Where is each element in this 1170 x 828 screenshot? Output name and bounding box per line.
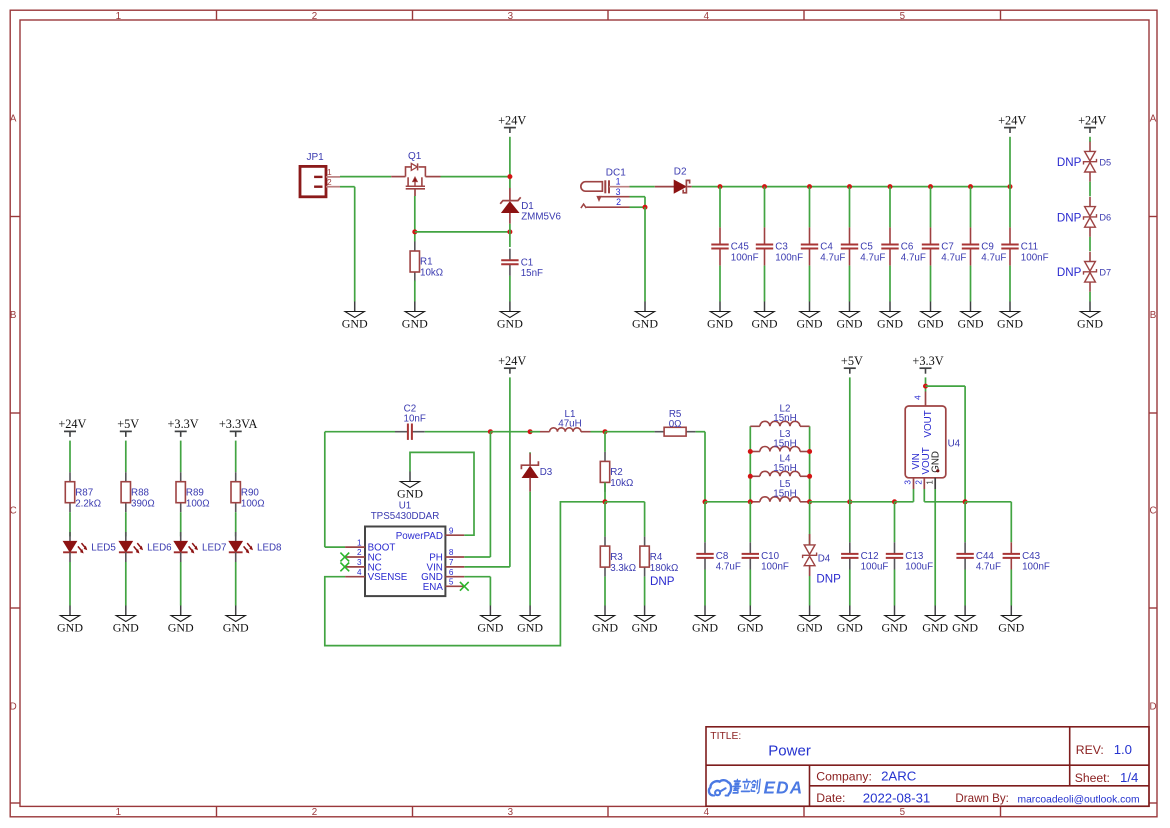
svg-text:9: 9 (449, 526, 454, 535)
svg-text:GND: GND (113, 620, 139, 634)
svg-text:C5: C5 (860, 242, 873, 253)
svg-text:15nH: 15nH (773, 438, 796, 449)
svg-text:D: D (10, 702, 17, 713)
wire (704, 570, 706, 606)
svg-text:100nF: 100nF (1021, 252, 1049, 263)
junction (762, 184, 767, 189)
svg-text:1/4: 1/4 (1120, 770, 1138, 785)
svg-text:GND: GND (692, 620, 718, 634)
wire BOOT (325, 546, 345, 548)
svg-text:4.7uF: 4.7uF (981, 252, 1006, 263)
inductor L2 (750, 404, 809, 427)
capacitor C5 (841, 227, 886, 265)
net +3.3VA (indicator) (219, 417, 258, 437)
wire C2 left (325, 431, 395, 433)
svg-text:LED7: LED7 (202, 542, 227, 553)
wire L ladder left rail (749, 426, 751, 502)
ground (692, 606, 718, 635)
ground (497, 302, 523, 331)
diode D1 zener (500, 188, 561, 224)
inductor L1 (540, 409, 591, 432)
resistor R89 (176, 472, 210, 512)
capacitor C44 (956, 542, 1001, 572)
svg-text:A: A (10, 114, 17, 125)
capacitor C11 (1001, 227, 1048, 265)
wire (180, 512, 182, 536)
wire (894, 502, 896, 543)
wire (125, 562, 127, 606)
capacitor C7 (922, 227, 967, 265)
no-connect X (340, 553, 349, 562)
wire (930, 187, 932, 228)
svg-text:C10: C10 (761, 551, 780, 562)
svg-text:+24V: +24V (58, 417, 86, 431)
EasyEDA logo (709, 778, 803, 798)
svg-text:+5V: +5V (117, 417, 139, 431)
svg-text:C7: C7 (941, 242, 954, 253)
svg-text:R88: R88 (131, 487, 150, 498)
svg-text:DNP: DNP (816, 573, 841, 586)
wire (930, 266, 932, 302)
wire (810, 501, 850, 503)
LED LED7 (174, 532, 227, 562)
ground (918, 302, 944, 331)
junction (923, 384, 928, 389)
svg-text:GND: GND (797, 316, 823, 330)
wire JP1.1 to Q1 (340, 176, 391, 178)
ground (342, 302, 368, 331)
svg-text:C44: C44 (976, 551, 995, 562)
wire (809, 187, 811, 228)
svg-text:GND: GND (517, 620, 543, 634)
svg-text:1: 1 (357, 538, 362, 547)
ground (632, 302, 658, 331)
junction (488, 429, 493, 434)
wire (894, 570, 896, 606)
svg-text:Sheet:: Sheet: (1075, 771, 1110, 785)
diode D5 (DNP) (1057, 142, 1111, 182)
capacitor C4 (801, 227, 846, 265)
IC U4 regulator (904, 392, 961, 490)
svg-text:GND: GND (877, 316, 903, 330)
wire PH bus (490, 431, 530, 433)
wire DC1.3 (630, 196, 646, 198)
ground (517, 606, 543, 635)
LED LED8 (229, 532, 282, 562)
junction (507, 229, 512, 234)
wire (1010, 570, 1012, 606)
wire C1 to ground (509, 276, 511, 302)
junction (643, 205, 648, 210)
junction (748, 499, 753, 504)
ground (PowerPAD) (397, 472, 423, 501)
junction (748, 449, 753, 454)
svg-text:U1: U1 (399, 500, 412, 511)
svg-text:R89: R89 (186, 487, 204, 498)
ground (952, 606, 978, 635)
ground (402, 302, 428, 331)
svg-text:JP1: JP1 (307, 152, 325, 163)
wire to R5 (605, 431, 655, 433)
svg-text:PowerPAD: PowerPAD (396, 531, 443, 542)
wire (925, 377, 927, 391)
wire U4 GND (934, 489, 936, 606)
capacitor C2 (395, 403, 426, 440)
svg-text:5: 5 (449, 578, 454, 587)
svg-text:3.3kΩ: 3.3kΩ (610, 563, 636, 574)
svg-text:GND: GND (997, 316, 1023, 330)
LED LED6 (119, 532, 172, 562)
net +5V (841, 354, 863, 374)
svg-text:Q1: Q1 (408, 151, 422, 162)
wire L ladder right rail (809, 426, 811, 502)
svg-text:GND: GND (168, 620, 194, 634)
wire C2 right to PH node (425, 431, 491, 433)
svg-text:D7: D7 (1099, 268, 1111, 278)
svg-text:180kΩ: 180kΩ (650, 563, 679, 574)
svg-text:C3: C3 (775, 242, 788, 253)
ground (592, 606, 618, 635)
wire (964, 570, 966, 606)
junction (748, 474, 753, 479)
svg-text:15nH: 15nH (773, 489, 796, 500)
svg-text:GND: GND (918, 316, 944, 330)
wire VIN (464, 566, 510, 568)
junction (963, 499, 968, 504)
svg-text:R87: R87 (75, 487, 93, 498)
svg-text:GND: GND (707, 316, 733, 330)
capacitor C12 (841, 542, 888, 572)
ground (882, 606, 908, 635)
svg-text:3: 3 (904, 480, 913, 485)
svg-text:4.7uF: 4.7uF (901, 252, 926, 263)
svg-text:A: A (1150, 114, 1157, 125)
junction (603, 429, 608, 434)
svg-text:2: 2 (616, 197, 621, 207)
wire +24V to bus (1009, 137, 1011, 187)
svg-text:100uF: 100uF (861, 562, 889, 573)
wire gate node to D1 cathode node (415, 231, 510, 233)
junction (847, 499, 852, 504)
ground (922, 606, 948, 635)
svg-text:100Ω: 100Ω (186, 498, 210, 509)
wire DC1.1 to D2 (630, 186, 655, 188)
svg-text:+24V: +24V (498, 113, 526, 127)
wire (889, 266, 891, 302)
wire +24V down to VIN (509, 377, 511, 567)
svg-text:GND: GND (342, 316, 368, 330)
svg-text:VOUT: VOUT (923, 410, 934, 437)
wire +24V down to D1 (509, 137, 511, 188)
junction (968, 184, 973, 189)
svg-text:U4: U4 (948, 439, 961, 450)
svg-text:D5: D5 (1099, 158, 1111, 168)
junction (603, 499, 608, 504)
svg-text:+3.3VA: +3.3VA (219, 417, 258, 431)
wire (849, 570, 851, 606)
svg-text:100Ω: 100Ω (241, 498, 265, 509)
svg-text:DNP: DNP (1057, 211, 1082, 224)
net +24V (cap bank) (998, 113, 1026, 133)
svg-text:2ARC: 2ARC (881, 769, 917, 784)
svg-text:390Ω: 390Ω (131, 498, 155, 509)
svg-text:LED6: LED6 (147, 542, 172, 553)
ground (958, 302, 984, 331)
wire (749, 502, 751, 543)
svg-text:D2: D2 (674, 167, 687, 178)
ground (752, 302, 778, 331)
wire (719, 187, 721, 228)
wire D1 to C1 (509, 224, 511, 247)
wire to R3 (604, 502, 606, 537)
resistor R5 (655, 409, 696, 436)
wire (849, 187, 851, 228)
wire PowerPAD to ground (410, 452, 474, 535)
svg-text:LED5: LED5 (91, 542, 116, 553)
connector DC1 barrel jack (581, 167, 630, 208)
svg-text:4.7uF: 4.7uF (941, 252, 966, 263)
svg-text:REV:: REV: (1076, 743, 1104, 757)
svg-text:3: 3 (508, 11, 514, 22)
svg-text:ENA: ENA (423, 582, 444, 593)
wire (970, 266, 972, 302)
junction (528, 429, 533, 434)
wire +24V bus (692, 186, 1010, 188)
svg-text:4: 4 (914, 395, 923, 400)
resistor R3 (600, 537, 636, 577)
svg-text:Date:: Date: (816, 791, 845, 805)
wire (180, 562, 182, 606)
wire down (704, 432, 706, 502)
svg-text:R3: R3 (610, 552, 623, 563)
wire (644, 577, 646, 606)
svg-text:1.0: 1.0 (1114, 742, 1132, 757)
inductor L5 (750, 479, 809, 502)
junction (892, 499, 897, 504)
wire (604, 577, 606, 606)
svg-text:GND: GND (397, 486, 423, 500)
svg-text:4.7uF: 4.7uF (716, 562, 741, 573)
wire (69, 441, 71, 473)
ground (797, 302, 823, 331)
wire +3.3V branch (926, 385, 966, 387)
wire +5V riser (849, 377, 851, 501)
svg-text:GND: GND (402, 316, 428, 330)
svg-text:DNP: DNP (650, 575, 675, 588)
wire (489, 577, 491, 606)
svg-text:GND: GND (837, 316, 863, 330)
ground (57, 606, 83, 635)
net +24V (indicator) (58, 417, 86, 437)
no-connect X (460, 582, 469, 591)
wire (970, 187, 972, 228)
ground (877, 302, 903, 331)
title block (706, 727, 1149, 806)
junction (1008, 184, 1013, 189)
svg-text:GND: GND (592, 620, 618, 634)
wire VSENSE feedback loop (325, 502, 603, 646)
svg-text:7: 7 (449, 558, 454, 567)
svg-text:+3.3V: +3.3V (168, 417, 199, 431)
svg-text:5: 5 (900, 807, 906, 818)
svg-text:C1: C1 (521, 258, 534, 269)
svg-text:C: C (1149, 506, 1156, 517)
svg-text:1: 1 (925, 480, 934, 485)
svg-text:1: 1 (116, 11, 121, 22)
junction (807, 474, 812, 479)
svg-text:+24V: +24V (498, 354, 526, 368)
wire VOUT down (923, 489, 925, 502)
wire Q1 drain to +24V node (441, 176, 510, 178)
svg-text:GND: GND (223, 620, 249, 634)
diode D3 schottky (521, 452, 552, 491)
junction (928, 184, 933, 189)
wire (69, 512, 71, 536)
svg-text:1: 1 (616, 177, 621, 187)
svg-text:10kΩ: 10kΩ (610, 478, 633, 489)
svg-text:100nF: 100nF (775, 252, 803, 263)
ground (997, 302, 1023, 331)
ground (113, 606, 139, 635)
svg-text:1: 1 (116, 807, 121, 818)
svg-text:R90: R90 (241, 487, 260, 498)
inductor L4 (750, 454, 809, 477)
svg-text:2: 2 (915, 480, 924, 485)
svg-text:4: 4 (357, 568, 362, 577)
svg-text:4.7uF: 4.7uF (860, 252, 885, 263)
wire (764, 266, 766, 302)
svg-text:10kΩ: 10kΩ (420, 268, 443, 279)
svg-text:1: 1 (327, 167, 332, 177)
svg-text:2: 2 (312, 807, 317, 818)
wire (644, 197, 646, 208)
wire (764, 187, 766, 228)
svg-text:100nF: 100nF (731, 252, 759, 263)
wire JP1.2 (340, 186, 355, 188)
ground (737, 606, 763, 635)
svg-text:marcoadeoli@outlook.com: marcoadeoli@outlook.com (1018, 794, 1140, 805)
svg-text:4: 4 (704, 807, 710, 818)
svg-text:D4: D4 (818, 554, 831, 565)
no-connect X (340, 563, 349, 572)
wire (749, 570, 751, 606)
svg-text:0Ω: 0Ω (669, 419, 682, 430)
svg-text:GND: GND (998, 620, 1024, 634)
wire (1089, 137, 1091, 142)
svg-text:B: B (10, 310, 17, 321)
wire (889, 187, 891, 228)
svg-text:C8: C8 (716, 551, 729, 562)
svg-text:4: 4 (704, 11, 710, 22)
diode D7 (DNP) (1057, 252, 1111, 292)
junction (412, 229, 417, 234)
svg-text:GND: GND (1077, 316, 1103, 330)
junction (807, 449, 812, 454)
wire (529, 452, 531, 453)
junction (807, 499, 812, 504)
svg-text:EDA: EDA (764, 778, 804, 798)
svg-text:DNP: DNP (1057, 266, 1082, 279)
ground (837, 606, 863, 635)
wire D3 to ground (529, 492, 531, 606)
svg-text:C43: C43 (1022, 551, 1041, 562)
svg-text:GND: GND (952, 620, 978, 634)
wire 3.3V rail (924, 501, 965, 503)
wire (1010, 502, 1012, 543)
resistor R1 (410, 242, 443, 282)
wire to U4 VIN (895, 501, 914, 503)
wire 5V rail (705, 501, 750, 503)
capacitor C3 (756, 227, 803, 265)
ground (168, 606, 194, 635)
ground (998, 606, 1024, 635)
svg-text:Company:: Company: (816, 770, 872, 784)
svg-text:TPS5430DDAR: TPS5430DDAR (371, 511, 440, 522)
wire DC1.2 (630, 206, 646, 208)
svg-text:R2: R2 (610, 467, 623, 478)
capacitor C13 (886, 542, 933, 572)
wire (125, 441, 127, 473)
svg-text:LED8: LED8 (257, 542, 282, 553)
svg-text:C: C (10, 506, 17, 517)
ground (707, 302, 733, 331)
wire (849, 502, 851, 543)
svg-text:15nF: 15nF (521, 268, 543, 279)
capacitor C1 (501, 249, 543, 279)
svg-text:2022-08-31: 2022-08-31 (863, 791, 930, 806)
svg-text:GND: GND (931, 451, 942, 473)
svg-text:3: 3 (616, 187, 621, 197)
wire (809, 576, 811, 606)
wire (180, 441, 182, 473)
svg-text:ZMM5V6: ZMM5V6 (521, 211, 561, 222)
svg-text:GND: GND (737, 620, 763, 634)
junction (807, 184, 812, 189)
wire (235, 512, 237, 536)
wire (704, 502, 706, 543)
svg-text:8: 8 (449, 548, 454, 557)
diode D2 schottky (655, 167, 692, 193)
net +3.3V (indicator) (168, 417, 199, 437)
svg-text:C6: C6 (901, 242, 914, 253)
ground (1077, 302, 1103, 331)
net +24V (diode chain) (1078, 113, 1106, 133)
svg-text:GND: GND (958, 316, 984, 330)
junction (718, 184, 723, 189)
wire (965, 501, 1011, 503)
junction (888, 184, 893, 189)
wire (1009, 266, 1011, 302)
svg-text:GND: GND (752, 316, 778, 330)
svg-text:GND: GND (477, 620, 503, 634)
svg-text:C45: C45 (731, 242, 750, 253)
wire PH (464, 556, 490, 558)
svg-text:B: B (1150, 310, 1157, 321)
net +24V (buck input) (498, 354, 526, 374)
svg-text:GND: GND (797, 620, 823, 634)
wire (849, 266, 851, 302)
connector JP1 (300, 152, 340, 197)
svg-text:10nF: 10nF (404, 413, 426, 424)
svg-text:+24V: +24V (998, 113, 1026, 127)
wire R5 right (696, 431, 705, 433)
svg-text:6: 6 (449, 568, 454, 577)
svg-text:5: 5 (900, 11, 906, 22)
wire (964, 386, 966, 502)
svg-text:GND: GND (882, 620, 908, 634)
svg-text:+3.3V: +3.3V (912, 354, 943, 368)
svg-text:2: 2 (312, 11, 317, 22)
